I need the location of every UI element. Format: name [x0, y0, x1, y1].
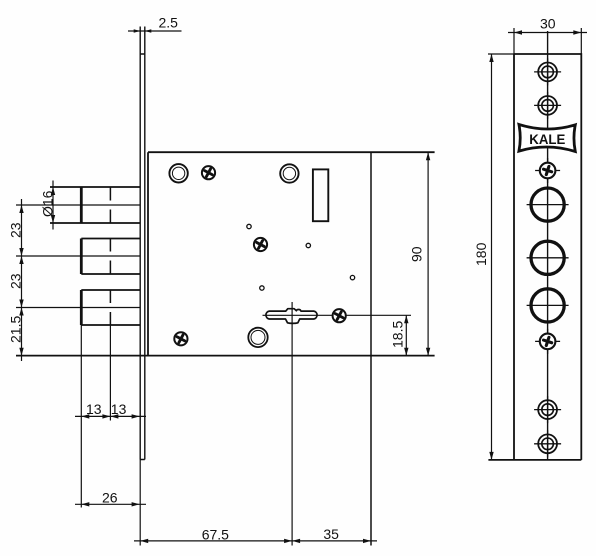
svg-text:30: 30	[540, 16, 556, 32]
svg-text:23: 23	[8, 273, 24, 289]
svg-text:18.5: 18.5	[390, 321, 406, 348]
svg-text:180: 180	[473, 242, 489, 266]
svg-text:KALE: KALE	[529, 131, 565, 147]
svg-text:26: 26	[102, 490, 118, 506]
svg-text:Ø16: Ø16	[40, 190, 56, 217]
svg-text:67.5: 67.5	[202, 526, 229, 542]
svg-text:13: 13	[86, 401, 102, 417]
svg-text:13: 13	[111, 401, 127, 417]
svg-text:2.5: 2.5	[159, 15, 179, 31]
svg-text:23: 23	[8, 222, 24, 238]
svg-text:35: 35	[323, 526, 339, 542]
svg-text:21.5: 21.5	[8, 316, 24, 343]
svg-text:90: 90	[409, 246, 425, 262]
